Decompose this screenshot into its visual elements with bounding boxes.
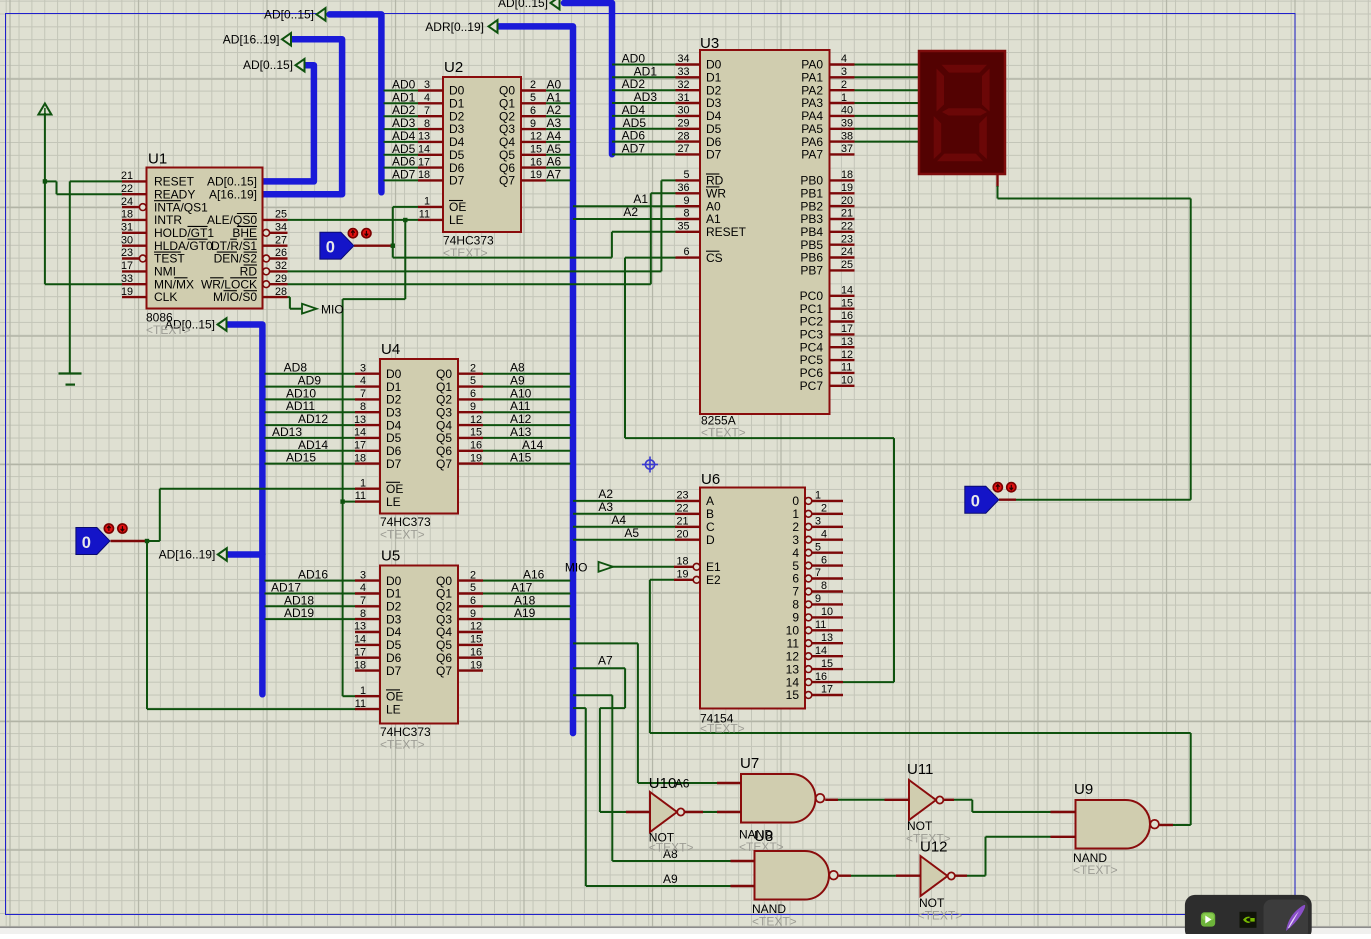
svg-text:<TEXT>: <TEXT> xyxy=(146,323,191,337)
svg-text:4: 4 xyxy=(424,92,430,104)
U4 pin Q6 xyxy=(458,450,483,452)
svg-text:14: 14 xyxy=(841,285,853,297)
svg-text:PA7: PA7 xyxy=(801,148,823,162)
svg-text:5: 5 xyxy=(683,169,689,181)
svg-text:20: 20 xyxy=(841,195,853,207)
U2 pin Q2 xyxy=(521,115,546,117)
svg-text:U2: U2 xyxy=(444,59,463,76)
U2 pin Q5 xyxy=(521,154,546,156)
U1 pin 23 (TEST) xyxy=(122,257,139,259)
svg-text:Q1: Q1 xyxy=(499,97,515,111)
wire U10 output to U7 input B xyxy=(685,811,704,813)
svg-text:3: 3 xyxy=(815,516,821,528)
U1 pin 29 (WR/LOCK) xyxy=(270,283,288,285)
svg-text:Q4: Q4 xyxy=(436,625,452,639)
svg-text:A1: A1 xyxy=(547,90,562,104)
svg-text:RD: RD xyxy=(706,174,724,188)
svg-text:<TEXT>: <TEXT> xyxy=(443,246,488,260)
svg-text:29: 29 xyxy=(275,273,287,285)
ground symbol xyxy=(59,372,82,374)
U3 pin 5 (RD) xyxy=(676,179,701,181)
U5 pin Q5 xyxy=(458,644,483,646)
latch U2 74HC373 xyxy=(443,77,521,232)
svg-text:12: 12 xyxy=(470,414,482,426)
svg-text:35: 35 xyxy=(677,221,689,233)
svg-text:DEN/S2: DEN/S2 xyxy=(214,252,258,266)
U6 pin 13 (out 11) xyxy=(805,640,812,647)
svg-text:D6: D6 xyxy=(386,651,402,665)
svg-text:D0: D0 xyxy=(386,574,402,588)
U1 pin 28 (M/IO/S0) xyxy=(263,296,288,298)
U3 pin 19 (PB1) xyxy=(830,192,855,194)
junction logicstate2 xyxy=(145,539,149,543)
U5 pin Q4 xyxy=(458,631,483,633)
wire U7 output to U11 input xyxy=(825,799,838,801)
U2 pin Q6 xyxy=(521,166,546,168)
svg-text:AD[0..15]: AD[0..15] xyxy=(243,58,293,72)
svg-text:ADR[0..19]: ADR[0..19] xyxy=(425,20,484,34)
wire ALE net (U1 pin25 - U2 LE - U4 LE - U5 OE) xyxy=(288,219,419,221)
svg-text:30: 30 xyxy=(121,234,133,246)
svg-text:A7: A7 xyxy=(598,654,613,668)
svg-text:7: 7 xyxy=(360,595,366,607)
svg-text:A2: A2 xyxy=(598,487,613,501)
svg-text:D3: D3 xyxy=(386,405,402,419)
svg-text:7: 7 xyxy=(424,105,430,117)
wire logicstate2 net (U4 OE / U5 LE) xyxy=(111,540,148,542)
U3 pin 27 (D7) xyxy=(676,153,701,155)
U2 pin Q7 xyxy=(521,179,546,181)
terminal ADR[0..19] label xyxy=(489,20,498,33)
svg-text:33: 33 xyxy=(677,66,689,78)
U4 pin D5 xyxy=(355,437,380,439)
wire U11 output to U9 input A xyxy=(943,799,954,801)
svg-text:8: 8 xyxy=(792,598,799,612)
svg-text:Q5: Q5 xyxy=(436,431,452,445)
svg-text:13: 13 xyxy=(354,414,366,426)
U6 pin 21 (C) xyxy=(675,526,700,528)
svg-text:4: 4 xyxy=(792,546,799,560)
wire A9 (bus to U8 input B) xyxy=(573,707,586,709)
svg-text:3: 3 xyxy=(792,533,799,547)
svg-text:15: 15 xyxy=(821,658,833,670)
svg-text:D7: D7 xyxy=(386,457,402,471)
bus ADR[0..19] main vertical xyxy=(498,26,573,733)
svg-text:39: 39 xyxy=(841,118,853,130)
svg-text:PC0: PC0 xyxy=(800,289,824,303)
svg-text:19: 19 xyxy=(676,569,688,581)
junction logicstate1 xyxy=(391,244,395,248)
svg-text:0: 0 xyxy=(326,239,335,257)
U3 pin 28 (D6) xyxy=(676,140,701,142)
svg-text:8: 8 xyxy=(360,608,366,620)
U4 pin D2 xyxy=(355,398,380,400)
U3 pin 38 (PA6) xyxy=(830,140,855,142)
svg-text:34: 34 xyxy=(677,53,689,65)
svg-text:AD12: AD12 xyxy=(298,412,328,426)
svg-text:TEST: TEST xyxy=(154,252,185,266)
svg-text:17: 17 xyxy=(418,156,430,168)
svg-text:5: 5 xyxy=(792,559,799,573)
svg-text:A9: A9 xyxy=(663,872,678,886)
svg-text:18: 18 xyxy=(418,169,430,181)
svg-text:D1: D1 xyxy=(449,97,465,111)
svg-text:U12: U12 xyxy=(920,839,948,856)
svg-text:0: 0 xyxy=(792,494,799,508)
wire U2-OE / logicstate1 / U3-RESET net xyxy=(393,206,419,208)
svg-text:2: 2 xyxy=(821,503,827,515)
U4 pin D6 xyxy=(355,450,380,452)
svg-text:11: 11 xyxy=(355,698,366,710)
svg-text:17: 17 xyxy=(354,440,366,452)
svg-text:28: 28 xyxy=(677,130,689,142)
wire A5 (bus to U6 D) xyxy=(573,539,677,541)
svg-text:PB4: PB4 xyxy=(800,225,823,239)
U3 pin 35 (RESET) xyxy=(676,231,701,233)
svg-text:AD16: AD16 xyxy=(298,568,328,582)
svg-text:9: 9 xyxy=(792,611,799,625)
U2 pin Q4 xyxy=(521,141,546,143)
U3 pin 4 (PA0) xyxy=(830,63,855,65)
svg-text:LE: LE xyxy=(386,495,401,509)
svg-text:27: 27 xyxy=(275,234,287,246)
svg-text:6: 6 xyxy=(792,572,799,586)
svg-text:17: 17 xyxy=(354,646,366,658)
svg-text:32: 32 xyxy=(677,79,689,91)
nvidia icon xyxy=(1240,912,1257,928)
svg-text:14: 14 xyxy=(354,427,366,439)
svg-text:24: 24 xyxy=(841,246,853,258)
logicstate toggle dots right xyxy=(993,483,1002,492)
svg-text:PB6: PB6 xyxy=(800,251,823,265)
svg-text:25: 25 xyxy=(275,209,287,221)
U4 pin D4 xyxy=(355,424,380,426)
svg-text:Q0: Q0 xyxy=(436,574,452,588)
svg-text:15: 15 xyxy=(786,688,800,702)
wire A3 (bus to U6 B) xyxy=(573,513,677,515)
svg-text:30: 30 xyxy=(677,105,689,117)
not gate U10 xyxy=(650,792,677,832)
U4 pin Q7 xyxy=(458,462,483,464)
svg-text:A6: A6 xyxy=(675,777,690,791)
svg-text:MIO: MIO xyxy=(321,303,344,317)
U6 pin 19 (E2) xyxy=(674,579,693,581)
svg-text:B: B xyxy=(706,507,714,521)
U5 pin D2 xyxy=(355,605,380,607)
svg-text:11: 11 xyxy=(355,490,366,502)
svg-text:D5: D5 xyxy=(449,148,465,162)
svg-text:D2: D2 xyxy=(386,600,402,614)
ppi U3 8255A xyxy=(700,50,830,414)
svg-text:Q6: Q6 xyxy=(436,651,452,665)
U3 pin 3 (PA1) xyxy=(830,76,855,78)
overlay taskbar xyxy=(1185,895,1312,939)
U3 pin 18 (PB0) xyxy=(830,179,855,181)
U6 pin 4 (out 3) xyxy=(805,536,812,543)
svg-text:8: 8 xyxy=(360,401,366,413)
svg-text:<TEXT>: <TEXT> xyxy=(701,426,746,440)
svg-text:8: 8 xyxy=(424,118,430,130)
U3 pin 9 (A0) xyxy=(676,205,701,207)
svg-text:Q5: Q5 xyxy=(499,148,515,162)
svg-text:A0: A0 xyxy=(706,199,721,213)
svg-text:15: 15 xyxy=(530,143,542,155)
svg-text:Q7: Q7 xyxy=(499,174,515,188)
svg-text:18: 18 xyxy=(354,452,366,464)
svg-text:11: 11 xyxy=(841,362,852,374)
bus AD[16..19] to U1 A pin xyxy=(263,39,343,194)
U2 pin D2 xyxy=(418,115,443,117)
svg-text:1: 1 xyxy=(360,685,366,697)
U6 pin 15 (out 13) xyxy=(805,666,812,673)
wire A4 (bus to U6 C) xyxy=(573,526,677,528)
svg-text:<TEXT>: <TEXT> xyxy=(700,722,745,736)
U4 pin D1 xyxy=(355,385,380,387)
wire A8 (bus to U8 input A) xyxy=(573,694,612,696)
U1 pin 30 (HLDA/GT0) xyxy=(122,244,147,246)
U3 pin 40 (PA4) xyxy=(830,115,855,117)
svg-text:PB0: PB0 xyxy=(800,174,823,188)
U1 pin 25 (ALE/QS0) xyxy=(263,219,288,221)
U2 pin Q3 xyxy=(521,128,546,130)
svg-text:4: 4 xyxy=(360,582,366,594)
svg-text:RESET: RESET xyxy=(706,225,747,239)
window bottom strip xyxy=(0,927,1371,929)
svg-text:1: 1 xyxy=(841,92,847,104)
U3 pin 12 (PC5) xyxy=(830,359,855,361)
svg-text:A3: A3 xyxy=(598,500,613,514)
U3 pin 33 (D1) xyxy=(676,76,701,78)
junction VCC xyxy=(43,179,47,183)
svg-text:19: 19 xyxy=(121,286,133,298)
bus AD[16..19] terminal stub xyxy=(227,551,262,558)
svg-text:U10: U10 xyxy=(649,775,677,792)
svg-text:5: 5 xyxy=(815,541,821,553)
U6 pin 22 (B) xyxy=(675,513,700,515)
svg-text:A[16..19]: A[16..19] xyxy=(209,187,257,201)
svg-text:U3: U3 xyxy=(700,35,719,52)
wire U12 output to U9 input B xyxy=(955,875,967,877)
svg-text:A2: A2 xyxy=(623,205,638,219)
svg-text:17: 17 xyxy=(121,260,133,272)
svg-text:19: 19 xyxy=(470,452,482,464)
U6 pin 2 (out 1) xyxy=(805,510,812,517)
svg-text:D4: D4 xyxy=(386,625,402,639)
U3 pin 13 (PC4) xyxy=(830,346,855,348)
U2 pin D5 xyxy=(418,154,443,156)
U4 pin Q4 xyxy=(458,424,483,426)
svg-text:18: 18 xyxy=(121,209,133,221)
U3 pin 1 (PA3) xyxy=(830,102,855,104)
svg-text:U9: U9 xyxy=(1074,781,1093,798)
svg-text:AD1: AD1 xyxy=(634,64,658,78)
svg-text:D: D xyxy=(706,533,715,547)
wire U8 output to U12 input xyxy=(839,875,851,877)
svg-text:A5: A5 xyxy=(624,526,639,540)
svg-text:CS: CS xyxy=(706,251,723,265)
svg-text:Q3: Q3 xyxy=(436,405,452,419)
U3 pin 10 (PC7) xyxy=(830,385,855,387)
svg-text:17: 17 xyxy=(821,684,833,696)
logicstate toggle dots near U2 xyxy=(348,229,357,238)
U4 pin Q0 xyxy=(458,373,483,375)
svg-text:C: C xyxy=(706,520,715,534)
svg-text:2: 2 xyxy=(470,362,476,374)
svg-text:28: 28 xyxy=(275,286,287,298)
play icon xyxy=(1201,912,1215,926)
svg-text:7: 7 xyxy=(360,388,366,400)
U3 pin 29 (D5) xyxy=(676,128,701,130)
svg-text:6: 6 xyxy=(470,595,476,607)
U5 pin OE xyxy=(355,695,380,697)
svg-text:11: 11 xyxy=(419,209,430,221)
svg-text:U11: U11 xyxy=(907,761,933,778)
svg-text:AD13: AD13 xyxy=(272,425,302,439)
U1 pin 19 (CLK) xyxy=(122,296,147,298)
svg-text:9: 9 xyxy=(470,608,476,620)
svg-text:<TEXT>: <TEXT> xyxy=(380,528,425,542)
U3 pin 6 (CS) xyxy=(676,256,701,258)
svg-text:1: 1 xyxy=(424,196,430,208)
terminal AD[0..15] label (U1 AD) xyxy=(296,59,305,72)
svg-text:AD4: AD4 xyxy=(392,129,416,143)
U2 pin D1 xyxy=(418,102,443,104)
svg-text:AD8: AD8 xyxy=(284,361,308,375)
svg-text:AD2: AD2 xyxy=(392,103,416,117)
U1 pin 18 (INTR) xyxy=(122,219,147,221)
U3 pin 14 (PC0) xyxy=(830,295,855,297)
U5 pin D6 xyxy=(355,657,380,659)
svg-text:AD[0..15]: AD[0..15] xyxy=(264,7,314,21)
svg-text:33: 33 xyxy=(121,273,133,285)
U5 pin Q7 xyxy=(458,669,483,671)
terminal AD[0..15] label (U2 bus) xyxy=(317,8,326,21)
U1 pin 27 (DT/R/S1) xyxy=(263,244,288,246)
svg-text:PA5: PA5 xyxy=(801,122,823,136)
svg-text:12: 12 xyxy=(786,649,800,663)
U6 pin 14 (out 12) xyxy=(805,653,812,660)
U3 pin 20 (PB2) xyxy=(830,205,855,207)
U5 pin D0 xyxy=(355,579,380,581)
svg-text:READY: READY xyxy=(154,187,195,201)
U6 pin 3 (out 2) xyxy=(805,523,812,530)
wire A2 (bus to U6 A) xyxy=(573,500,677,502)
svg-text:22: 22 xyxy=(121,183,133,195)
svg-text:13: 13 xyxy=(841,336,853,348)
U5 pin Q2 xyxy=(458,605,483,607)
logicstate toggle dots near U4 xyxy=(104,524,113,533)
svg-text:<TEXT>: <TEXT> xyxy=(380,738,425,752)
svg-text:<TEXT>: <TEXT> xyxy=(918,909,963,923)
logicstate 0 flag right xyxy=(965,486,999,513)
U6 pin 7 (out 6) xyxy=(805,575,812,582)
svg-text:40: 40 xyxy=(841,105,853,117)
bus AD[0..15] to U1 AD pin xyxy=(263,65,314,181)
terminal AD[0..15] label (top, cut) xyxy=(551,0,560,9)
svg-text:5: 5 xyxy=(470,375,476,387)
junction ALE at U2 LE xyxy=(403,218,407,222)
svg-text:AD3: AD3 xyxy=(634,90,658,104)
U2 pin D4 xyxy=(418,141,443,143)
svg-text:14: 14 xyxy=(815,645,827,657)
U1 pin 24 (INTA/QS1) xyxy=(122,206,139,208)
not gate U12 xyxy=(921,856,948,896)
wire A7 (bus to U10 input) xyxy=(573,667,625,669)
svg-text:21: 21 xyxy=(841,208,853,220)
wire WR net (U1 pin29 - U3 WR) xyxy=(288,283,651,285)
svg-text:A16: A16 xyxy=(523,568,545,582)
not gate U11 xyxy=(909,780,936,820)
svg-text:21: 21 xyxy=(121,170,133,182)
svg-text:D0: D0 xyxy=(386,367,402,381)
svg-text:AD11: AD11 xyxy=(286,399,315,413)
svg-text:4: 4 xyxy=(360,375,366,387)
svg-text:AD15: AD15 xyxy=(286,451,316,465)
svg-text:0: 0 xyxy=(971,493,980,511)
svg-text:36: 36 xyxy=(677,182,689,194)
svg-text:18: 18 xyxy=(676,556,688,568)
svg-text:7: 7 xyxy=(815,567,821,579)
terminal MIO (U1 side) xyxy=(302,304,317,314)
svg-text:18: 18 xyxy=(354,659,366,671)
svg-text:19: 19 xyxy=(530,169,542,181)
svg-text:AD4: AD4 xyxy=(622,103,646,117)
U1 pin 31 (HOLD/GT1) xyxy=(122,232,147,234)
svg-text:19: 19 xyxy=(470,659,482,671)
svg-text:13: 13 xyxy=(354,621,366,633)
feather icon xyxy=(1286,905,1305,931)
svg-text:U6: U6 xyxy=(701,471,720,488)
svg-text:9: 9 xyxy=(815,593,821,605)
svg-text:20: 20 xyxy=(676,528,688,540)
U5 pin Q1 xyxy=(458,592,483,594)
svg-text:14: 14 xyxy=(354,634,366,646)
U5 pin Q3 xyxy=(458,618,483,620)
logicstate 0 flag near U2 xyxy=(320,232,354,259)
U3 pin 23 (PB5) xyxy=(830,243,855,245)
svg-text:15: 15 xyxy=(470,634,482,646)
U5 pin Q6 xyxy=(458,657,483,659)
svg-text:Q3: Q3 xyxy=(499,122,515,136)
terminal AD[16..19] label (U1 A) xyxy=(282,33,291,46)
svg-text:HLDA/GT0: HLDA/GT0 xyxy=(154,239,213,253)
svg-text:A2: A2 xyxy=(547,103,562,117)
U3 pin 22 (PB4) xyxy=(830,231,855,233)
svg-text:MIO: MIO xyxy=(565,561,588,575)
svg-text:38: 38 xyxy=(841,130,853,142)
svg-text:D5: D5 xyxy=(386,431,402,445)
svg-text:1: 1 xyxy=(792,507,799,521)
latch U5 74HC373 xyxy=(380,566,458,724)
svg-text:E1: E1 xyxy=(706,560,721,574)
svg-text:A8: A8 xyxy=(510,361,525,375)
U2 pin LE xyxy=(418,219,443,221)
svg-text:15: 15 xyxy=(841,297,853,309)
svg-text:D7: D7 xyxy=(449,174,465,188)
svg-text:19: 19 xyxy=(841,182,853,194)
wire A1 (bus to U3 A0) xyxy=(573,205,677,207)
U3 pin 31 (D3) xyxy=(676,102,701,104)
svg-text:3: 3 xyxy=(360,569,366,581)
U6 pin 1 (out 0) xyxy=(805,498,812,505)
U6 pin 17 (out 15) xyxy=(805,692,812,699)
svg-text:Q7: Q7 xyxy=(436,664,452,678)
terminal AD[16..19] label (U5 bus) xyxy=(218,548,227,561)
svg-text:D7: D7 xyxy=(706,148,722,162)
svg-text:37: 37 xyxy=(841,143,853,155)
svg-text:PC7: PC7 xyxy=(800,379,824,393)
svg-text:5: 5 xyxy=(530,92,536,104)
